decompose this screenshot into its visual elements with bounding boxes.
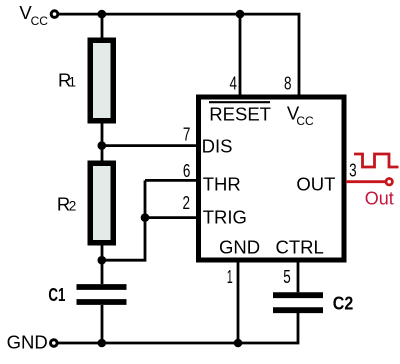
- svg-text:TRIG: TRIG: [203, 207, 247, 228]
- svg-text:1: 1: [227, 266, 233, 287]
- svg-text:C1: C1: [48, 284, 65, 305]
- svg-text:5: 5: [283, 266, 291, 287]
- svg-text:1: 1: [69, 75, 77, 90]
- svg-text:2: 2: [69, 199, 77, 214]
- svg-text:6: 6: [183, 160, 191, 181]
- svg-text:RESET: RESET: [209, 103, 271, 124]
- svg-text:CC: CC: [31, 14, 49, 28]
- svg-text:8: 8: [284, 72, 292, 93]
- svg-text:GND: GND: [219, 237, 260, 258]
- svg-text:3: 3: [349, 159, 357, 180]
- svg-text:GND: GND: [7, 332, 48, 353]
- svg-text:THR: THR: [203, 174, 241, 195]
- svg-text:2: 2: [182, 192, 190, 213]
- svg-text:DIS: DIS: [202, 135, 233, 156]
- svg-text:4: 4: [230, 72, 238, 93]
- svg-text:OUT: OUT: [296, 174, 335, 195]
- svg-text:C2: C2: [333, 293, 354, 314]
- svg-text:CC: CC: [296, 114, 314, 128]
- svg-text:7: 7: [183, 124, 191, 145]
- svg-text:Out: Out: [365, 189, 394, 209]
- svg-text:CTRL: CTRL: [276, 237, 324, 258]
